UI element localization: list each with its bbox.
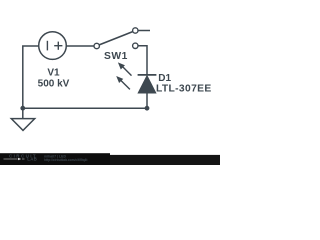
LED D1 [138,75,157,108]
node junction dot at LED cathode bottom [145,106,150,111]
LED emission arrow 1 [118,62,132,75]
node junction dot at ground [20,106,25,111]
LED emission arrow 2 [116,76,130,89]
wire bottom net [23,107,147,109]
svg-text:500 kV: 500 kV [38,78,70,89]
wire ground stub [22,108,24,118]
svg-text:http://circuitlab.com/c/6f9q4t: http://circuitlab.com/c/6f9q4t [44,158,88,162]
wire V1 to SW1 [66,45,94,47]
wire SW1 top throw stub [138,30,150,32]
svg-text:SW1: SW1 [104,51,128,62]
ground [11,119,34,131]
svg-text:LTL-307EE: LTL-307EE [156,83,212,94]
svg-text:V1: V1 [47,67,60,78]
voltage source V1 [39,32,67,60]
switch SW1 [94,28,138,49]
wire SW1 bottom throw to LED [138,46,147,75]
svg-text:LAB: LAB [27,157,37,162]
CircuitLab watermark [0,153,220,165]
wire V1 left lead [23,46,39,108]
